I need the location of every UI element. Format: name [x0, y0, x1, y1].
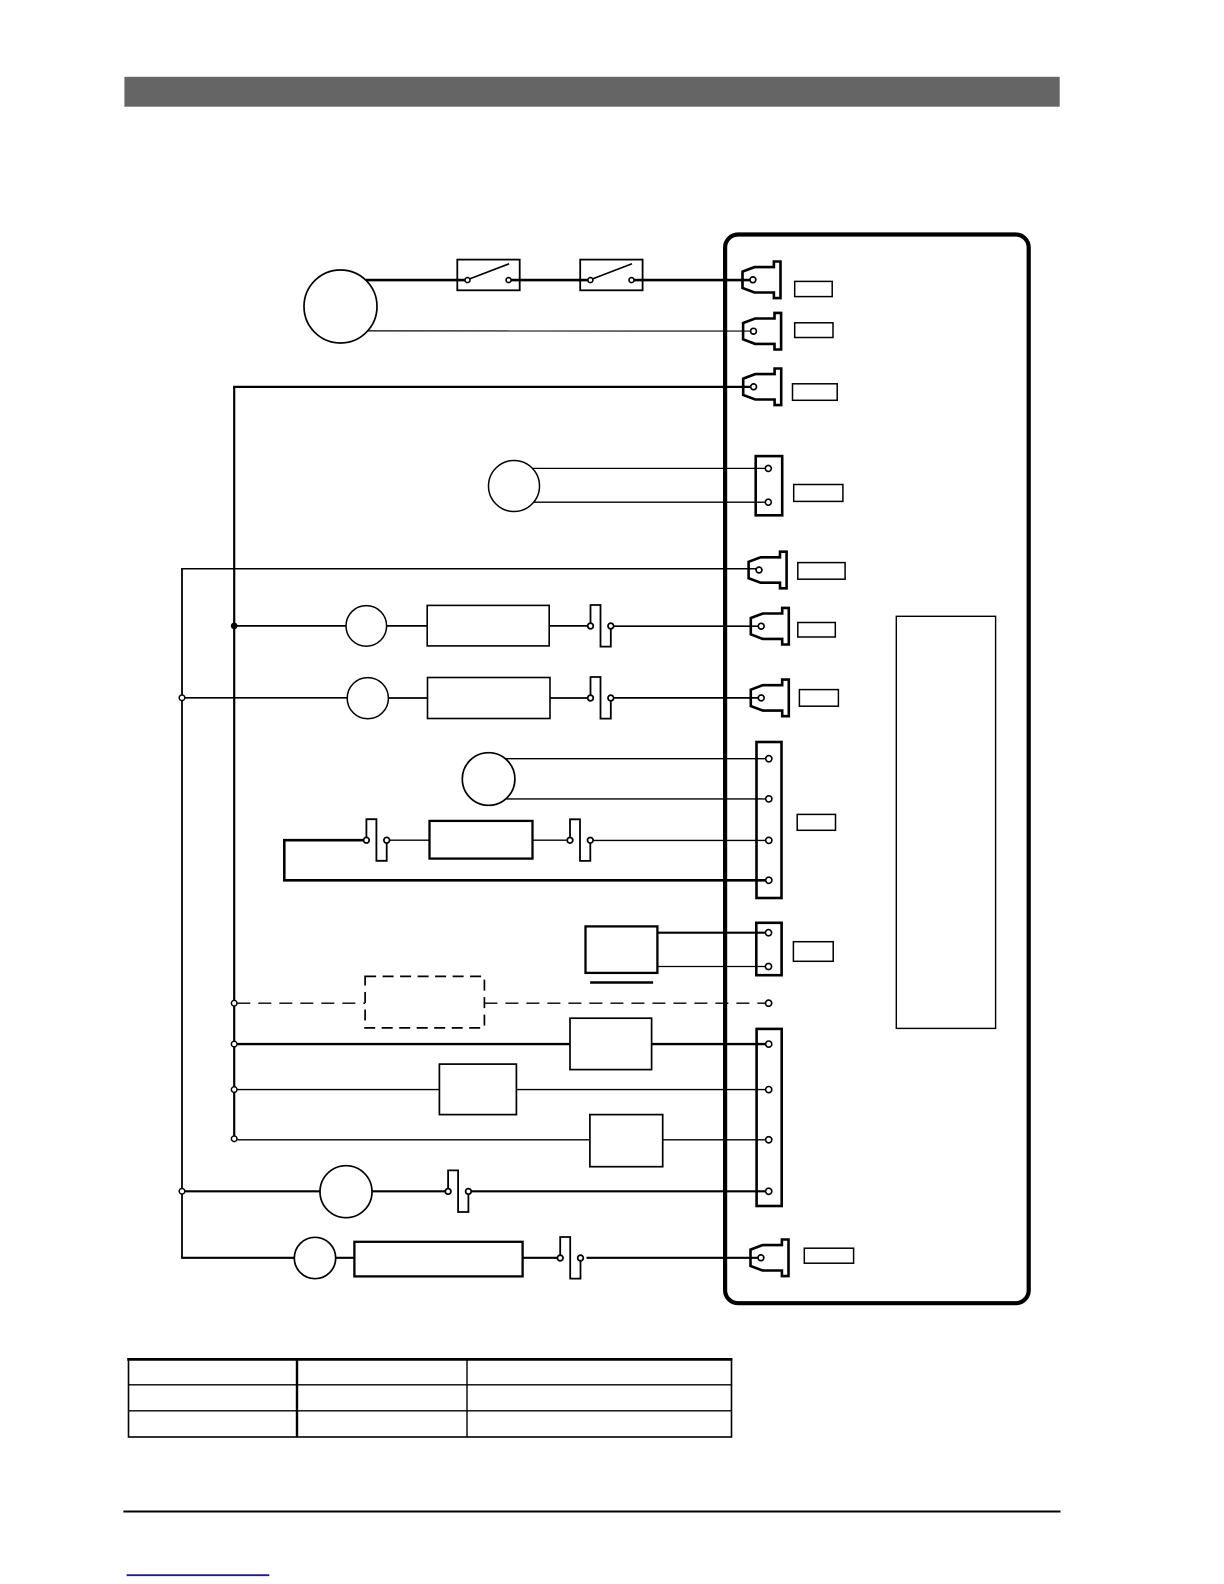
connector CN9 pin 1: [765, 930, 771, 936]
wire heater R1 to thermal fuse F1: [549, 625, 587, 627]
connector CN10 pin 3: [766, 1137, 772, 1143]
pump motor M2: [489, 461, 540, 512]
wire bus L2 to component K2: [237, 1043, 570, 1045]
motor M4: [347, 678, 388, 719]
motor M3: [346, 606, 387, 647]
connector CN9 body: [756, 923, 781, 975]
wire component K4 to connector CN10 pin 3: [663, 1139, 766, 1141]
thermal fuse F3: [364, 819, 390, 861]
terminal CN11: [751, 1240, 789, 1277]
parts table row divider 2: [129, 1410, 732, 1412]
label CN11: [804, 1248, 853, 1263]
wire bus L2 to motor M3: [234, 625, 346, 627]
terminal CN1: [743, 262, 781, 299]
heater R3: [430, 821, 533, 859]
wire module K1 to connector CN9 pin 1: [657, 932, 765, 934]
connector CN4 pin 2: [765, 499, 771, 505]
fan motor M5: [462, 753, 515, 806]
node bus L1 row 13: [179, 1189, 185, 1195]
terminal CN2: [743, 313, 781, 350]
control board U1 outline: [725, 235, 1029, 1304]
wire heater R2 to thermal fuse F2: [550, 697, 587, 699]
node bus L2 row 10: [231, 1041, 237, 1047]
wire fan motor M5 to connector CN8 pin 1: [505, 758, 765, 760]
wire component K3 to connector CN10 pin 2: [516, 1089, 765, 1091]
node bus L2 dashed row: [231, 1000, 237, 1006]
heater R1: [427, 605, 549, 646]
thermal fuse F4: [567, 819, 593, 861]
label CN4: [794, 485, 843, 502]
parts table top border thick: [127, 1358, 732, 1361]
component K2: [570, 1018, 652, 1069]
node board end of dashed wire: [766, 1000, 772, 1006]
terminal CN5: [749, 552, 787, 589]
wire bus L2 to terminal CN3: [233, 386, 751, 388]
node bus L2 row 11: [231, 1087, 237, 1093]
connector CN10 pin 1: [766, 1041, 772, 1047]
wire heater R4 to thermal fuse F6: [523, 1257, 557, 1259]
heater R2: [428, 678, 551, 719]
bus wire L2 second vertical: [233, 387, 235, 1139]
wire switch S1 to switch S2: [512, 279, 588, 282]
motor M1: [304, 270, 377, 343]
wire motor M6 to thermal fuse F5: [372, 1190, 445, 1192]
connector CN4 pin 1: [765, 465, 771, 471]
wire heater branch L-shape to connector CN8 pin 4: [284, 840, 765, 880]
wire bus L2 to component K4: [237, 1139, 590, 1141]
label CN6: [798, 623, 836, 638]
wire motor M7 to heater R4: [336, 1257, 355, 1259]
wire bus L1 to motor M6: [185, 1190, 321, 1192]
motor M7: [294, 1237, 335, 1278]
switch S1: [457, 260, 519, 291]
connector CN9 pin 2: [765, 963, 771, 969]
dashed wire optional component to board node: [484, 1002, 765, 1004]
dashed wire bus L2 to optional component: [237, 1002, 365, 1004]
wire bus L2 to component K3: [237, 1089, 439, 1091]
wire heater R3 to thermal fuse F4: [533, 839, 567, 841]
footer rule: [123, 1511, 1060, 1513]
bus wire L1 left vertical: [181, 569, 183, 1258]
wire switch S2 to terminal CN1: [634, 279, 750, 282]
wire bus L1 to motor M7: [181, 1257, 294, 1259]
header bar: [124, 77, 1059, 107]
wire thermal fuse F1 to terminal CN6: [614, 625, 758, 627]
wire bus L1 to terminal CN5: [181, 568, 756, 570]
label CN1: [795, 281, 833, 296]
connector CN8 pin 2: [766, 796, 772, 802]
wire thermal fuse F6 to terminal CN11: [587, 1257, 759, 1259]
wire motor M1 to terminal CN2: [368, 330, 751, 332]
board display window: [896, 616, 995, 1028]
terminal CN3: [743, 369, 781, 406]
wire motor M4 to heater R2: [388, 697, 427, 699]
label CN2: [795, 323, 833, 338]
wire pump motor M2 to connector CN4 pin 2: [534, 501, 766, 503]
thermal fuse F5: [445, 1170, 471, 1212]
label CN5: [798, 563, 845, 580]
connector CN10 body: [757, 1029, 782, 1206]
connector CN8 pin 4: [766, 877, 772, 883]
wire motor M3 to heater R1: [387, 625, 428, 627]
label CN8: [797, 814, 835, 830]
wire thermal fuse F2 to terminal CN7: [614, 697, 758, 699]
motor M6: [320, 1166, 372, 1218]
wire thermal fuse F3 to heater R3: [390, 839, 430, 841]
component K4: [590, 1115, 663, 1167]
connector CN8 body: [757, 742, 782, 898]
connector CN8 pin 1: [766, 756, 772, 762]
wire module K1 to connector CN9 pin 2: [657, 966, 765, 968]
wire thermal fuse F5 to connector CN10 pin 4: [471, 1190, 765, 1192]
connector CN10 pin 4: [766, 1188, 772, 1194]
component K3: [439, 1064, 516, 1115]
node bus L1 row 7: [179, 695, 185, 701]
terminal CN6: [751, 608, 789, 645]
thermal fuse F6: [557, 1237, 583, 1279]
label CN3: [793, 384, 838, 401]
wire thermal fuse F4 to connector CN8 pin 3: [594, 839, 766, 841]
module K1: [586, 926, 658, 973]
terminal CN7: [751, 680, 789, 717]
connector CN10 pin 2: [766, 1087, 772, 1093]
switch S2: [580, 260, 642, 291]
connector CN8 pin 3: [766, 837, 772, 843]
parts table column divider 1: [296, 1359, 298, 1437]
label CN7: [799, 690, 838, 707]
thermal fuse F2: [588, 677, 614, 719]
wire component K2 to connector CN10 pin 1: [652, 1043, 766, 1045]
junction dot bus L2 row 6: [231, 623, 238, 630]
wire bus L1 to motor M4: [182, 697, 347, 699]
thermal fuse F1: [588, 605, 614, 647]
node bus L2 row 12: [231, 1136, 237, 1142]
parts table row divider 1: [129, 1384, 732, 1386]
heater R4: [354, 1242, 522, 1277]
parts table outline: [129, 1359, 732, 1437]
wire motor M1 to switch S1: [366, 279, 465, 282]
optional component dashed outline: [365, 976, 484, 1028]
connector CN4 body: [756, 456, 783, 515]
wire pump motor M2 to connector CN4 pin 1: [533, 467, 766, 469]
parts table column divider 2: [466, 1359, 468, 1437]
footer link underline: [127, 1574, 270, 1576]
module K1 underline: [590, 981, 653, 984]
wire fan motor M5 to connector CN8 pin 2: [506, 798, 766, 800]
label CN9: [793, 942, 833, 962]
